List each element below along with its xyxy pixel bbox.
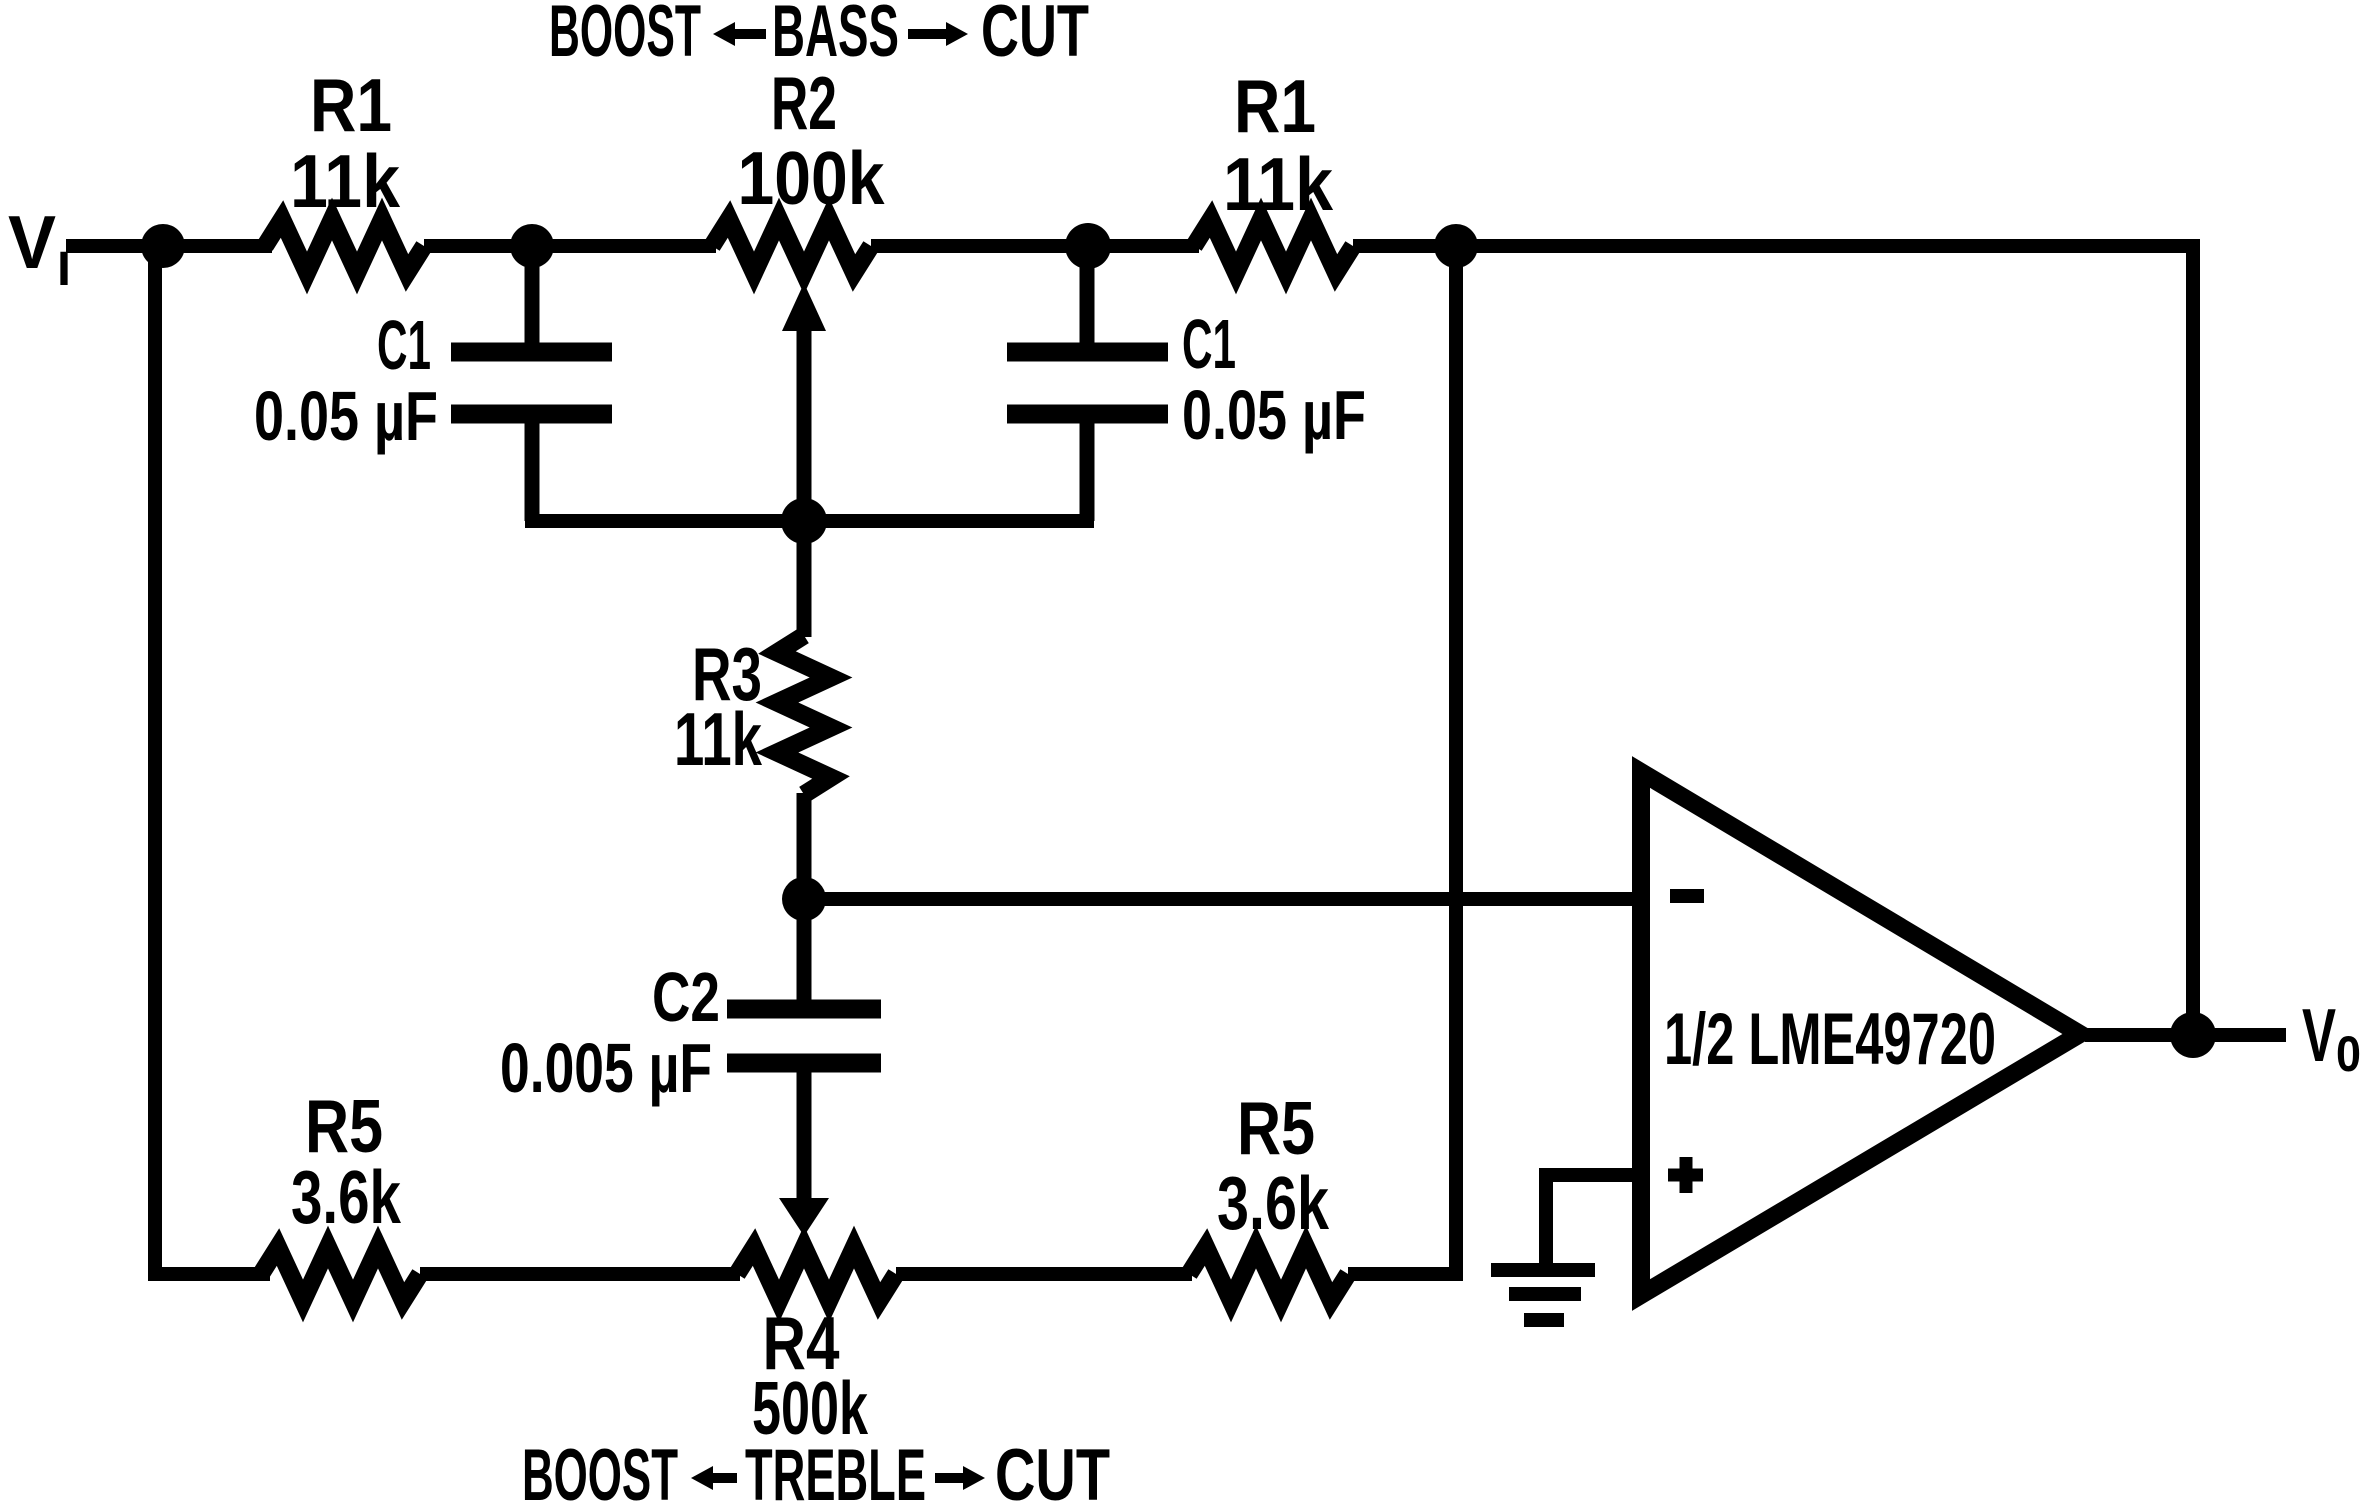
svg-text:100k: 100k: [738, 136, 885, 220]
wiper arrow of R2: [797, 328, 812, 521]
wire right vertical riser: [1449, 246, 1463, 1274]
wire inverting input: [804, 892, 1640, 906]
svg-text:3.6k: 3.6k: [1217, 1161, 1329, 1245]
wiper arrow of R4: [797, 1065, 812, 1202]
svg-text:V: V: [2302, 993, 2336, 1077]
wire capacitor bus: [525, 514, 1094, 528]
svg-text:C1: C1: [1182, 305, 1236, 383]
resistor R1 left: [265, 219, 424, 273]
node VI input label: [8, 200, 71, 296]
wire top main segment 3: [871, 239, 1199, 253]
label C1 0.05uF right: [1182, 305, 1366, 454]
label R5 3.6k right: [1217, 1086, 1329, 1245]
resistor R5 left: [261, 1247, 420, 1301]
svg-text:11k: 11k: [290, 139, 400, 223]
label R2 100k: [738, 61, 885, 220]
node D junction dot: [1434, 224, 1478, 268]
wire bottom segment 1: [155, 1267, 266, 1281]
op-amp minus sign: [1670, 889, 1704, 903]
svg-text:R2: R2: [771, 61, 837, 145]
wire left vertical from VI: [155, 246, 270, 1274]
svg-text:CUT: CUT: [981, 0, 1089, 72]
wire bottom segment 3: [896, 1267, 1192, 1281]
potentiometer R2 100k: [712, 219, 871, 273]
svg-text:C2: C2: [652, 958, 720, 1036]
resistor R5 right: [1189, 1247, 1348, 1301]
capacitor C2: [727, 1009, 881, 1063]
potentiometer R4 500k: [737, 1247, 896, 1301]
svg-text:1/2 LME49720: 1/2 LME49720: [1664, 999, 1996, 1080]
svg-text:BASS: BASS: [772, 0, 899, 72]
wire bottom segment 4 to right riser: [1348, 1267, 1463, 1281]
ground: [1491, 1270, 1595, 1320]
svg-text:0.05 µF: 0.05 µF: [254, 377, 438, 455]
svg-text:BOOST: BOOST: [549, 0, 701, 72]
op-amp plus sign: [1668, 1157, 1703, 1193]
svg-text:3.6k: 3.6k: [291, 1155, 401, 1239]
svg-text:CUT: CUT: [995, 1435, 1110, 1508]
svg-text:C1: C1: [377, 306, 431, 384]
resistor R3 vertical: [797, 521, 812, 637]
capacitor C1 left: [451, 352, 612, 414]
node C junction dot: [1065, 223, 1111, 269]
node bus junction dot: [781, 498, 827, 544]
node VO output label: [2302, 993, 2361, 1082]
svg-text:0.05 µF: 0.05 µF: [1182, 376, 1366, 454]
capacitor C1 right stem bottom: [1080, 416, 1095, 521]
wire bottom segment 2: [420, 1267, 740, 1281]
label R3 11k: [674, 632, 762, 781]
svg-text:11k: 11k: [674, 697, 762, 781]
capacitor C1 left stem bottom: [525, 416, 540, 521]
capacitor C2 stem top: [797, 899, 812, 1003]
svg-text:11k: 11k: [1223, 142, 1333, 226]
node R3 bottom junction dot: [782, 877, 826, 921]
label C1 0.05uF left: [254, 306, 438, 455]
label R1 11k right: [1223, 64, 1333, 226]
label BOOST-BASS-CUT: [549, 0, 1089, 72]
arrows of BASS title: [713, 22, 968, 46]
svg-text:V: V: [8, 200, 56, 284]
svg-text:BOOST: BOOST: [522, 1435, 678, 1508]
arrows of TREBLE title: [691, 1466, 985, 1490]
svg-text:0.005 µF: 0.005 µF: [500, 1029, 712, 1107]
label 1/2 LME49720: [1664, 999, 1996, 1080]
label R5 3.6k left: [291, 1084, 401, 1239]
node A junction dot: [141, 224, 185, 268]
op-amp U1 triangle: [1641, 772, 2080, 1295]
wire non-inverting input: [1546, 1175, 1640, 1265]
svg-text:R1: R1: [310, 63, 392, 147]
svg-text:0: 0: [2336, 1026, 2361, 1082]
label R4 500k: [752, 1301, 868, 1450]
svg-text:TREBLE: TREBLE: [745, 1435, 926, 1508]
node B junction dot: [510, 224, 554, 268]
capacitor C1 right: [1007, 352, 1168, 414]
svg-text:R5: R5: [1237, 1086, 1315, 1170]
label BOOST-TREBLE-CUT: [522, 1435, 1110, 1508]
wire top main segment 2: [424, 239, 716, 253]
wire output: [2085, 1028, 2286, 1042]
node output junction dot: [2170, 1012, 2216, 1058]
capacitor C1 left stem top: [525, 246, 540, 350]
label R1 11k left: [290, 63, 400, 223]
wire feedback top and right drop: [1353, 246, 2193, 1035]
capacitor C1 right stem top: [1080, 246, 1095, 350]
svg-text:R1: R1: [1234, 64, 1316, 148]
wire top main segment 1: [66, 239, 272, 253]
label C2 0.005uF: [500, 958, 720, 1107]
resistor R1 right: [1194, 219, 1353, 273]
